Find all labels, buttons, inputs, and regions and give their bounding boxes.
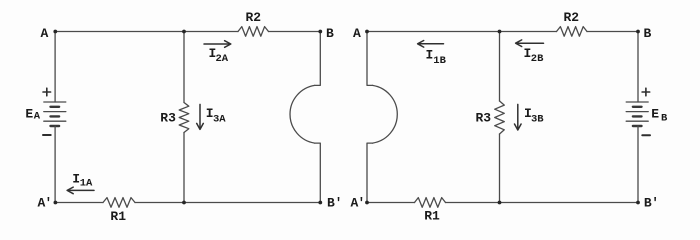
svg-text:': ' (45, 196, 53, 211)
label EB (battery EB value) (651, 106, 668, 124)
wire: right circuit coupling arc down to A' (367, 143, 373, 202)
current arrow I1A (points left) (67, 187, 94, 194)
svg-text:B: B (644, 26, 652, 41)
junction: right circuit R3 bottom (498, 201, 502, 205)
wire: left circuit top, R2 to B (269, 31, 321, 33)
label node B' (right circuit) (644, 196, 659, 211)
polarity + of battery EB (642, 88, 650, 96)
label node A' (right circuit) (351, 196, 366, 211)
junction: left circuit R3 bottom (182, 201, 186, 205)
svg-text:R3: R3 (476, 110, 492, 125)
resistor R2 (left circuit) (238, 27, 269, 37)
polarity - of battery EA (43, 134, 51, 136)
resistor R2 (right circuit) (557, 27, 588, 37)
svg-text:E: E (651, 106, 659, 121)
polarity - of battery EB (642, 134, 650, 136)
node B (right circuit) (636, 30, 640, 34)
junction: left circuit R3 top (182, 30, 186, 34)
svg-text:B: B (661, 113, 668, 125)
svg-text:1B: 1B (433, 55, 446, 67)
svg-text:A: A (34, 111, 41, 123)
node B (left circuit) (318, 30, 322, 34)
resistor R3 (left circuit) (179, 103, 189, 133)
label EA (battery EA value) (25, 106, 40, 122)
wire: right circuit top, R2 to B (587, 31, 638, 33)
label node B' (left circuit) (327, 196, 342, 211)
label I2B (524, 46, 545, 65)
svg-text:R1: R1 (110, 209, 126, 224)
current arrow I2A (points right) (204, 41, 231, 48)
current arrow I1B (points left) (418, 41, 444, 48)
wire: right circuit bottom, A' to R1 (367, 202, 415, 204)
label I1A (72, 171, 93, 189)
svg-text:R3: R3 (160, 110, 176, 125)
svg-text:1A: 1A (80, 178, 93, 190)
svg-text:2A: 2A (216, 53, 229, 65)
label I2A (209, 46, 229, 65)
label node A' (left circuit) (38, 196, 53, 211)
wire: left circuit R3 branch top (183, 32, 185, 103)
svg-text:E: E (25, 106, 33, 121)
svg-text:A: A (41, 26, 49, 41)
svg-text:A: A (353, 26, 361, 41)
wire: left circuit, A down to battery EA (54, 32, 56, 103)
label I1B (426, 48, 447, 67)
current arrow I3B (points down) (515, 104, 522, 130)
node B' (right circuit) (636, 201, 640, 205)
svg-text:2B: 2B (531, 53, 544, 65)
polarity + of battery EA (43, 88, 51, 96)
svg-text:I: I (426, 48, 434, 63)
node B' (left circuit) (318, 201, 322, 205)
current arrow I2B (points left) (516, 40, 544, 47)
wire: left circuit B down to coupling arc (315, 32, 321, 86)
node A' (left circuit) (54, 201, 58, 205)
wire: left circuit, battery EA down to A' (54, 126, 56, 203)
wire: right circuit A down to coupling arc (367, 32, 373, 86)
battery EA (44, 102, 66, 126)
wire: left circuit bottom, R1 to B' (135, 202, 320, 204)
node A (left circuit) (53, 30, 57, 34)
label I3A (206, 106, 227, 126)
junction: right circuit R3 top (498, 30, 502, 34)
svg-text:B: B (326, 26, 334, 41)
resistor R1 (right circuit) (415, 198, 446, 208)
wire: right circuit R3 branch top (499, 32, 501, 102)
wire: left circuit bottom, A' to R1 (55, 202, 103, 204)
svg-text:': ' (651, 196, 659, 211)
resistor R3 (right circuit) (495, 101, 505, 134)
wire: right circuit top, A to R2 (367, 31, 557, 33)
coupling loop arc (right half) (373, 85, 398, 143)
wire: right circuit bottom, R1 to B' (446, 202, 639, 204)
svg-text:': ' (358, 196, 366, 211)
wire: right circuit B down to battery EB (637, 32, 639, 103)
node A (right circuit) (365, 30, 369, 34)
wire: right circuit battery EB down to B' (637, 126, 639, 203)
svg-text:R1: R1 (424, 209, 440, 224)
coupling loop arc (left half) (290, 85, 315, 143)
wire: left circuit coupling arc down to B' (315, 143, 321, 202)
label I3B (524, 106, 544, 126)
current arrow I3A (points down) (197, 104, 204, 129)
wire: left circuit R3 branch bottom (183, 133, 185, 203)
svg-text:3A: 3A (213, 113, 226, 125)
resistor R1 (left circuit) (103, 198, 135, 208)
battery EB (626, 102, 648, 126)
svg-text:R2: R2 (246, 10, 262, 25)
svg-text:R2: R2 (564, 10, 580, 25)
wire: left circuit top, A to R2 (55, 31, 238, 33)
svg-text:': ' (335, 196, 343, 211)
wire: right circuit R3 branch bottom (499, 134, 501, 203)
svg-text:3B: 3B (531, 114, 544, 126)
node A' (right circuit) (365, 201, 369, 205)
